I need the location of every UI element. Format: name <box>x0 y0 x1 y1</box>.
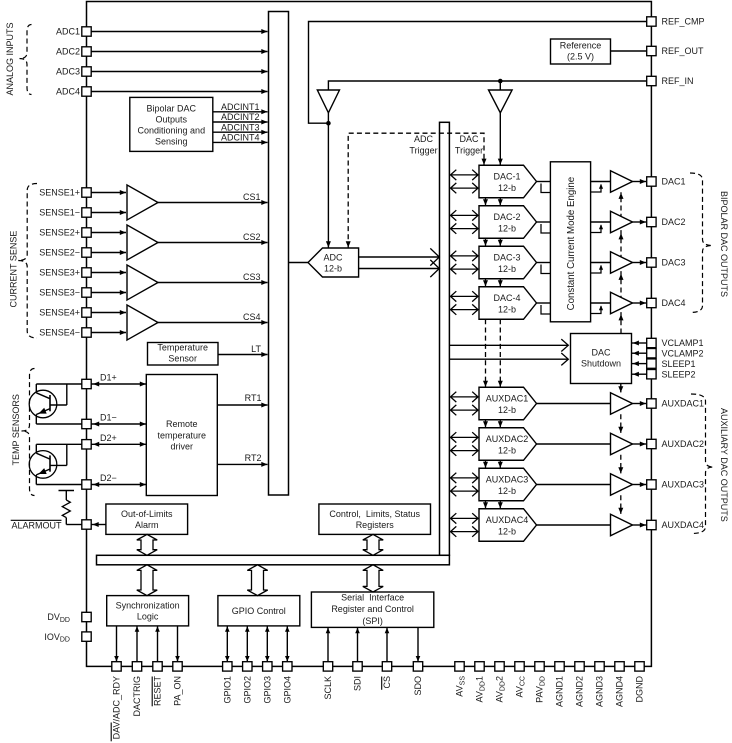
svg-text:AGND1: AGND1 <box>555 676 565 707</box>
svg-text:D2+: D2+ <box>100 433 117 443</box>
svg-text:AGND2: AGND2 <box>575 676 585 707</box>
svg-text:AUXDAC1: AUXDAC1 <box>486 393 529 403</box>
svg-text:12-b: 12-b <box>324 263 342 273</box>
svg-text:AGND3: AGND3 <box>595 676 605 707</box>
svg-text:RT2: RT2 <box>245 453 262 463</box>
svg-text:ADC1: ADC1 <box>56 27 80 37</box>
svg-text:DAC3: DAC3 <box>662 258 686 268</box>
svg-text:AUXDAC2: AUXDAC2 <box>486 434 529 444</box>
svg-text:12-b: 12-b <box>498 183 516 193</box>
svg-text:Synchronization: Synchronization <box>116 600 180 610</box>
svg-text:REF_OUT: REF_OUT <box>662 46 705 56</box>
svg-text:AUXDAC4: AUXDAC4 <box>486 515 529 525</box>
svg-text:D1+: D1+ <box>100 373 117 383</box>
svg-text:AUXDAC3: AUXDAC3 <box>662 480 705 490</box>
svg-text:ANALOG INPUTS: ANALOG INPUTS <box>5 22 15 95</box>
svg-text:CS2: CS2 <box>243 232 261 242</box>
svg-text:SENSE1+: SENSE1+ <box>39 188 80 198</box>
svg-text:SCLK: SCLK <box>323 676 333 700</box>
svg-text:VCLAMP2: VCLAMP2 <box>662 348 704 358</box>
svg-text:Logic: Logic <box>137 611 159 621</box>
svg-text:GPIO2: GPIO2 <box>243 676 253 704</box>
svg-text:Sensor: Sensor <box>168 354 197 364</box>
svg-text:ADC4: ADC4 <box>56 87 80 97</box>
svg-text:AUXDAC4: AUXDAC4 <box>662 520 705 530</box>
svg-text:ADCINT2: ADCINT2 <box>221 112 260 122</box>
svg-text:DAC: DAC <box>591 347 611 357</box>
svg-text:Bipolar DAC: Bipolar DAC <box>147 104 197 114</box>
svg-text:TEMP SENSORS: TEMP SENSORS <box>11 394 21 465</box>
svg-text:SLEEP2: SLEEP2 <box>662 369 696 379</box>
svg-text:D1−: D1− <box>100 413 117 423</box>
svg-text:DAC-2: DAC-2 <box>493 212 520 222</box>
svg-text:DAV/ADC_RDY: DAV/ADC_RDY <box>112 676 122 739</box>
svg-text:VCLAMP1: VCLAMP1 <box>662 338 704 348</box>
svg-text:ADC3: ADC3 <box>56 67 80 77</box>
svg-text:DAC4: DAC4 <box>662 298 686 308</box>
svg-text:REF_IN: REF_IN <box>662 76 694 86</box>
svg-text:Conditioning and: Conditioning and <box>138 126 206 136</box>
svg-text:12-b: 12-b <box>498 445 516 455</box>
svg-text:temperature: temperature <box>158 430 207 440</box>
svg-text:GPIO Control: GPIO Control <box>232 606 286 616</box>
svg-text:SENSE2−: SENSE2− <box>39 248 80 258</box>
svg-text:Register and Control: Register and Control <box>331 604 414 614</box>
svg-text:Sensing: Sensing <box>155 136 188 146</box>
svg-text:SENSE4−: SENSE4− <box>39 328 80 338</box>
svg-text:CURRENT SENSE: CURRENT SENSE <box>8 231 18 308</box>
svg-text:D2−: D2− <box>100 473 117 483</box>
svg-text:RT1: RT1 <box>245 393 262 403</box>
svg-text:AUXDAC1: AUXDAC1 <box>662 399 705 409</box>
svg-text:AUXILIARY DAC OUTPUTS: AUXILIARY DAC OUTPUTS <box>719 408 729 522</box>
svg-text:GPIO1: GPIO1 <box>223 676 233 704</box>
svg-text:Reference: Reference <box>560 41 602 51</box>
svg-text:ADCINT4: ADCINT4 <box>221 133 260 143</box>
svg-text:GPIO3: GPIO3 <box>263 676 273 704</box>
svg-text:SENSE3+: SENSE3+ <box>39 268 80 278</box>
svg-text:Outputs: Outputs <box>156 115 188 125</box>
svg-text:CS1: CS1 <box>243 192 261 202</box>
svg-text:AUXDAC3: AUXDAC3 <box>486 474 529 484</box>
svg-text:SENSE4+: SENSE4+ <box>39 308 80 318</box>
svg-text:(2.5 V): (2.5 V) <box>567 52 594 62</box>
svg-text:PA_ON: PA_ON <box>173 676 183 706</box>
svg-text:12-b: 12-b <box>498 223 516 233</box>
svg-text:AUXDAC2: AUXDAC2 <box>662 439 705 449</box>
svg-text:Trigger: Trigger <box>409 145 437 155</box>
svg-text:DAC1: DAC1 <box>662 177 686 187</box>
svg-text:Trigger: Trigger <box>455 145 483 155</box>
svg-text:ADC2: ADC2 <box>56 47 80 57</box>
svg-text:BIPOLAR DAC OUTPUTS: BIPOLAR DAC OUTPUTS <box>719 191 729 297</box>
svg-text:SENSE3−: SENSE3− <box>39 288 80 298</box>
svg-text:DAC: DAC <box>459 134 479 144</box>
svg-text:12-b: 12-b <box>498 304 516 314</box>
svg-text:(SPI): (SPI) <box>362 616 383 626</box>
svg-text:Shutdown: Shutdown <box>581 358 621 368</box>
svg-text:SDO: SDO <box>413 676 423 696</box>
svg-text:DAC-4: DAC-4 <box>493 293 520 303</box>
svg-text:DAC-3: DAC-3 <box>493 252 520 262</box>
svg-text:RESET: RESET <box>153 676 163 707</box>
svg-text:ADCINT3: ADCINT3 <box>221 122 260 132</box>
svg-text:CS3: CS3 <box>243 272 261 282</box>
svg-text:SENSE2+: SENSE2+ <box>39 228 80 238</box>
svg-text:12-b: 12-b <box>498 486 516 496</box>
svg-text:Constant Current Mode Engine: Constant Current Mode Engine <box>566 177 577 311</box>
svg-text:SENSE1−: SENSE1− <box>39 208 80 218</box>
svg-text:driver: driver <box>171 442 194 452</box>
svg-text:Temperature: Temperature <box>157 343 208 353</box>
svg-text:DAC2: DAC2 <box>662 217 686 227</box>
svg-text:ALARMOUT: ALARMOUT <box>11 520 62 530</box>
svg-text:SDI: SDI <box>353 676 363 691</box>
svg-text:DACTRIG: DACTRIG <box>132 676 142 717</box>
svg-text:12-b: 12-b <box>498 526 516 536</box>
svg-text:CS: CS <box>382 676 392 689</box>
svg-text:Alarm: Alarm <box>135 520 159 530</box>
svg-text:12-b: 12-b <box>498 264 516 274</box>
svg-text:ADC: ADC <box>323 252 343 262</box>
svg-text:ADC: ADC <box>414 134 434 144</box>
svg-text:AGND4: AGND4 <box>615 676 625 707</box>
svg-text:DAC-1: DAC-1 <box>493 171 520 181</box>
svg-text:Control, Limits, Status: Control, Limits, Status <box>329 509 420 519</box>
svg-text:12-b: 12-b <box>498 405 516 415</box>
svg-text:DGND: DGND <box>635 676 645 703</box>
svg-text:SLEEP1: SLEEP1 <box>662 359 696 369</box>
svg-text:Registers: Registers <box>356 520 395 530</box>
svg-text:Remote: Remote <box>166 419 198 429</box>
svg-text:GPIO4: GPIO4 <box>283 676 293 704</box>
svg-text:Out-of-Limits: Out-of-Limits <box>121 509 173 519</box>
svg-text:Serial Interface: Serial Interface <box>341 593 404 603</box>
svg-text:ADCINT1: ADCINT1 <box>221 102 260 112</box>
svg-text:CS4: CS4 <box>243 312 261 322</box>
svg-text:REF_CMP: REF_CMP <box>662 17 705 27</box>
svg-text:LT: LT <box>251 344 261 354</box>
